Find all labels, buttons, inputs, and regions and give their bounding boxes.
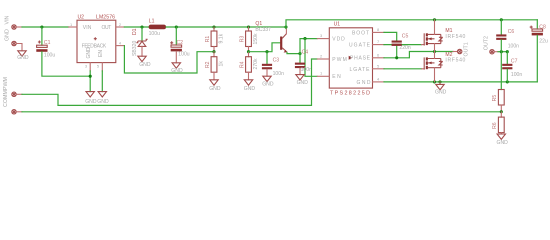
svg-text:C5: C5 (402, 33, 409, 39)
diode D1 SB320 (132, 27, 148, 56)
wire OUT2 node (498, 51, 507, 53)
wire C1 bottom to U2 gnd pin (42, 52, 90, 76)
svg-text:C6: C6 (508, 29, 515, 35)
connector pin COMMPWM 1 (3, 76, 16, 107)
svg-text:100n: 100n (511, 72, 522, 78)
wire U2 pin5 to ground (101, 71, 103, 92)
node C3 junction (265, 50, 268, 53)
svg-text:BOOT: BOOT (352, 30, 369, 36)
capacitor C6 (496, 20, 519, 52)
node switch node M1/M2 junction (433, 50, 436, 53)
svg-text:GND: GND (139, 62, 151, 68)
svg-text:VIN: VIN (83, 25, 92, 31)
svg-text:GND: GND (17, 55, 29, 61)
wire C5 bottom to PHASE node (396, 46, 398, 58)
node VDD/EN junction (303, 37, 306, 40)
node R3 junction (247, 25, 250, 28)
transistor M2 IRF540 (422, 52, 466, 82)
svg-text:9.1k: 9.1k (218, 33, 224, 43)
connector pin OUT1 (458, 42, 470, 56)
wire U1 UGATE stub (373, 44, 385, 46)
svg-text:R6: R6 (492, 122, 498, 129)
node R3/R4 junction (247, 50, 250, 53)
wire U2 pin3 gnd stub (89, 63, 91, 71)
wire VIN rail to U2 pin1 (22, 26, 69, 28)
node gnd symbol junction (438, 80, 441, 83)
node D1 junction (140, 25, 143, 28)
inductor L1 (149, 18, 167, 37)
connector pin OUT2 (484, 36, 495, 54)
wire switch node to OUT1 (453, 51, 457, 53)
svg-text:C2: C2 (177, 40, 184, 46)
svg-text:100u: 100u (178, 52, 189, 58)
wire U2 pin4 feedback stub (116, 45, 125, 47)
svg-text:R2: R2 (205, 61, 211, 68)
wire U1 LGATE stub (373, 68, 385, 70)
op-amp U1 TPS28225D driver (320, 21, 380, 96)
wire OUT2 stub (494, 51, 498, 53)
svg-text:GND: GND (97, 99, 109, 105)
node Q1 collector junction (284, 25, 287, 28)
wire U1 GND rail (384, 81, 537, 83)
node emitter/C4/VDD junction (298, 52, 301, 55)
wire BOOT to C5 (384, 32, 397, 40)
capacitor C1 (36, 27, 55, 58)
svg-text:100u: 100u (149, 31, 160, 37)
node R1 junction (212, 25, 215, 28)
svg-text:GND: GND (497, 140, 509, 146)
svg-text:GND: GND (262, 82, 274, 88)
svg-text:R4: R4 (239, 61, 245, 68)
wire U1 PWM stub (317, 58, 329, 60)
capacitor C3 (262, 52, 284, 77)
svg-text:R3: R3 (239, 36, 245, 43)
svg-text:270k: 270k (253, 58, 259, 69)
svg-text:EN: EN (98, 50, 104, 57)
wire PHASE to switch node (384, 52, 453, 58)
svg-text:TPS28225D: TPS28225D (330, 90, 370, 96)
resistor R3 (239, 27, 259, 52)
transistor M1 IRF540 (422, 20, 466, 52)
svg-text:IRF540: IRF540 (445, 57, 465, 63)
svg-text:C1: C1 (44, 40, 51, 46)
svg-text:100n: 100n (273, 71, 284, 77)
capacitor C4 (295, 50, 312, 75)
wire 5V rail up and over to C8 (286, 20, 537, 27)
ground (439, 82, 441, 85)
node C7 junction (506, 50, 509, 53)
node M2 source junction (433, 80, 436, 83)
capacitor C7 (502, 52, 522, 82)
wire U2 pin1 stub (69, 26, 77, 28)
svg-text:GND: GND (297, 80, 309, 86)
node C7 gnd junction (506, 80, 509, 83)
wire U1 EN stub (317, 75, 329, 77)
svg-text:C3: C3 (273, 58, 280, 64)
svg-text:PWM: PWM (332, 57, 347, 63)
resistor R5 (492, 52, 504, 112)
wire Q1 emitter to C4 node (287, 52, 300, 53)
svg-text:EN: EN (332, 74, 341, 80)
svg-text:GND: GND (86, 47, 92, 59)
wire U1 GND stub (373, 81, 385, 83)
capacitor C2 (170, 27, 190, 63)
node VIN/C1 junction (40, 25, 43, 28)
wire OUT rail (124, 26, 148, 28)
node C2 junction (175, 25, 178, 28)
svg-text:100n: 100n (301, 67, 312, 73)
svg-text:GND: GND (85, 99, 97, 105)
wire U2 pin3 to ground (89, 71, 91, 92)
wire U1 VDD stub (317, 38, 329, 40)
node C6 junction (500, 18, 503, 21)
svg-text:C8: C8 (539, 24, 546, 30)
svg-text:U2: U2 (78, 15, 85, 21)
svg-text:220n: 220n (399, 45, 410, 51)
wire feedback net U2 pin4 to R1/R2 junction (124, 46, 214, 73)
ground (86, 92, 94, 97)
svg-text:LM2576: LM2576 (96, 15, 115, 21)
wire U2 pin5 on/off stub (101, 63, 103, 71)
wire U1 PHASE stub (373, 57, 385, 59)
svg-text:GND: GND (357, 80, 371, 86)
svg-text:OUT1: OUT1 (464, 42, 470, 56)
connector pin COMMPWM 2 (12, 110, 16, 114)
ground (98, 92, 106, 97)
svg-text:PHASE: PHASE (350, 56, 371, 62)
svg-text:BC337: BC337 (255, 27, 271, 33)
resistor R4 (239, 52, 259, 80)
ground (497, 134, 505, 139)
svg-text:GND: GND (171, 68, 183, 74)
op-amp U2 LM2576 regulator (70, 15, 122, 69)
capacitor C8 (530, 20, 548, 82)
node C5/PHASE junction (395, 56, 398, 59)
node U2 gnd junction (89, 75, 92, 78)
wire COMM to PWM pin of U1 (22, 59, 317, 105)
wire COMM stub (16, 93, 22, 95)
wire L1 to rail (166, 26, 286, 28)
svg-text:SB320: SB320 (132, 41, 138, 56)
connector pin GND (5, 29, 17, 46)
svg-text:C4: C4 (302, 50, 309, 56)
ground (138, 56, 146, 61)
connector pin VIN (5, 15, 17, 29)
ground (263, 76, 271, 81)
resistor R6 (492, 112, 504, 134)
ground (18, 51, 26, 56)
ground (210, 80, 218, 85)
svg-text:UGATE: UGATE (349, 43, 371, 49)
svg-text:D1: D1 (132, 28, 138, 35)
node R1/R2 junction (212, 50, 215, 53)
svg-text:R5: R5 (492, 95, 498, 102)
wire U2 pin2 stub (116, 26, 125, 28)
svg-text:U1: U1 (334, 21, 341, 27)
capacitor C5 (392, 33, 411, 51)
wire long net to R5/R6 divider (22, 111, 501, 113)
wire UGATE to M1 gate (384, 44, 422, 46)
svg-text:100u: 100u (44, 52, 55, 58)
svg-text:GND: GND (209, 86, 221, 92)
svg-text:C7: C7 (511, 59, 518, 65)
wire VDD riser (300, 39, 317, 54)
resistor R2 (205, 52, 225, 80)
transistor Q1 BC337 (255, 21, 287, 52)
ground (296, 75, 304, 80)
svg-text:COMMPWM: COMMPWM (3, 76, 9, 107)
node R5/R6 junction (500, 110, 503, 113)
svg-text:L1: L1 (149, 18, 155, 24)
svg-text:LGATE: LGATE (350, 67, 371, 73)
resistor R1 (205, 27, 225, 52)
capacitor C5 bottom plate overlap (392, 44, 402, 46)
svg-text:1k: 1k (218, 61, 224, 67)
node M1 drain junction (433, 18, 436, 21)
wire VIN stub (16, 26, 22, 28)
ground (172, 63, 180, 68)
svg-text:VIN: VIN (5, 15, 11, 24)
svg-text:22u: 22u (539, 39, 548, 45)
svg-text:100n: 100n (508, 44, 519, 50)
svg-text:GND: GND (5, 29, 11, 41)
wire R3/R4 junction to Q1 base (249, 43, 281, 52)
svg-text:GND: GND (435, 90, 447, 96)
wire GND pin to ground (16, 44, 22, 51)
svg-text:GND: GND (244, 86, 256, 92)
svg-text:R1: R1 (205, 36, 211, 43)
svg-text:OUT2: OUT2 (484, 36, 490, 50)
svg-text:150k: 150k (253, 33, 259, 44)
svg-text:OUT: OUT (102, 25, 112, 31)
svg-text:VDD: VDD (332, 37, 345, 43)
node C6/R5 junction (500, 50, 503, 53)
wire Q1 collector up (285, 27, 287, 29)
wire PWM comm stub (16, 111, 22, 113)
svg-text:IRF540: IRF540 (445, 34, 465, 40)
ground (244, 80, 252, 85)
wire LGATE to M2 gate (384, 68, 422, 70)
wire EN feed from VDD (305, 39, 317, 77)
wire U1 BOOT stub (373, 31, 385, 33)
